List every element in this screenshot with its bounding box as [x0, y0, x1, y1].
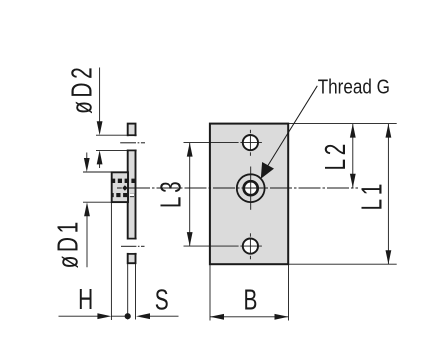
dimension oD1	[52, 153, 111, 269]
bottom hole crosshair	[184, 233, 262, 259]
side view bottom hole center line	[121, 245, 145, 247]
bottom extension line	[288, 263, 397, 265]
hub (boss)	[112, 172, 128, 202]
side view bottom hole gap	[126, 239, 137, 254]
svg-text:B: B	[243, 284, 261, 316]
center hole vertical center line	[250, 167, 252, 210]
side view top hole center line	[120, 142, 145, 144]
dimension L2	[320, 124, 356, 188]
center line diamond in hub	[122, 185, 127, 191]
svg-text:øD2: øD2	[66, 64, 98, 114]
side view plate body	[128, 124, 136, 264]
top hole	[243, 135, 258, 150]
side view top hole gap	[126, 135, 137, 150]
dimension B	[210, 264, 289, 320]
svg-text:Thread G: Thread G	[318, 75, 390, 98]
white notch in lower thread line	[130, 193, 134, 196]
main horizontal center line	[117, 187, 358, 189]
plate edge extension lines for H and S	[128, 263, 136, 319]
thread section lower line	[111, 193, 136, 197]
thread section upper line	[111, 179, 136, 183]
H extension line (hub face)	[110, 202, 112, 320]
dimension L1	[356, 124, 391, 265]
common point dot	[125, 313, 131, 319]
dimension oD2	[66, 64, 127, 168]
front view plate	[210, 124, 288, 265]
svg-text:H: H	[78, 284, 97, 316]
top extension line	[288, 123, 397, 125]
svg-text:L3: L3	[155, 178, 187, 208]
bottom hole	[243, 239, 258, 254]
dimension S	[136, 284, 179, 319]
svg-text:L1: L1	[356, 180, 388, 210]
dimension L3	[155, 143, 192, 247]
svg-text:øD1: øD1	[52, 218, 84, 268]
top hole crosshair	[184, 130, 262, 156]
svg-text:S: S	[155, 284, 173, 316]
dimension H	[59, 284, 128, 319]
Thread G label	[318, 75, 390, 98]
Thread G leader line	[261, 86, 318, 179]
center tapped hole	[237, 174, 265, 202]
svg-text:L2: L2	[320, 140, 352, 170]
